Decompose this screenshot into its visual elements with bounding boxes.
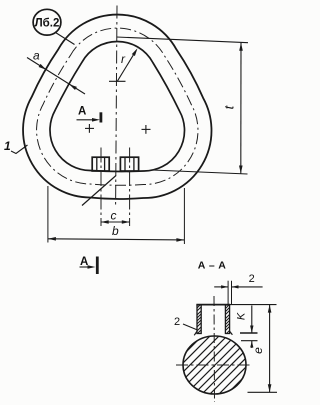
svg-text:2: 2	[174, 316, 180, 328]
section: vertical centerline	[213, 296, 216, 402]
joint diagonal line at ring gap	[82, 176, 116, 206]
dimension b extension lines	[47, 186, 49, 243]
section: circle horizontal centerline	[176, 364, 250, 366]
lug right centerline / c extension	[129, 148, 131, 227]
ring mid centerline (dash-dot)	[37, 28, 198, 185]
dimension K	[251, 306, 253, 334]
balloon leader	[56, 33, 75, 45]
svg-text:K: K	[236, 312, 248, 320]
dimension 2 (wall thickness, top) extension lines	[227, 281, 229, 305]
svg-text:e: e	[251, 347, 265, 354]
svg-text:c: c	[111, 209, 117, 223]
dimension 2 (top)	[214, 286, 228, 288]
position 2 leader	[183, 324, 198, 330]
svg-text:t: t	[222, 104, 237, 109]
dimension t extension lines	[117, 37, 249, 43]
section: clip feet	[194, 331, 197, 335]
svg-text:A: A	[80, 256, 88, 268]
svg-text:a: a	[33, 49, 40, 63]
node: bottom-right corner center cross	[142, 125, 151, 134]
node: top corner arc center cross	[109, 80, 126, 82]
dimension a (band width) leader with arrows	[27, 58, 85, 95]
e bottom extension line	[248, 391, 278, 393]
vertical centerline of ring	[116, 6, 117, 206]
svg-text:A – A: A – A	[198, 260, 227, 272]
balloon Лб.2	[33, 9, 61, 35]
lug right (front view)	[120, 157, 138, 171]
svg-text:A: A	[78, 106, 86, 118]
lug left (front view)	[92, 157, 109, 171]
svg-text:2: 2	[249, 273, 255, 285]
svg-text:1: 1	[4, 139, 11, 153]
lug left centerline / c extension	[100, 148, 102, 227]
lug-top extension line (for K and e)	[230, 304, 277, 306]
section: clip top edge	[196, 304, 230, 306]
node: bottom-left corner center cross	[85, 124, 94, 133]
svg-text:b: b	[112, 224, 119, 238]
dimension c	[101, 221, 130, 223]
svg-text:r: r	[121, 52, 126, 66]
dimension b	[48, 239, 185, 240]
ring inner contour	[50, 41, 185, 171]
position 1 leader	[11, 145, 28, 154]
svg-text:Лб.2: Лб.2	[35, 17, 60, 29]
dimension e	[269, 305, 271, 393]
dimension r (inner corner radius)	[117, 50, 136, 81]
dimension t	[240, 43, 242, 174]
ring outer contour	[23, 15, 211, 199]
